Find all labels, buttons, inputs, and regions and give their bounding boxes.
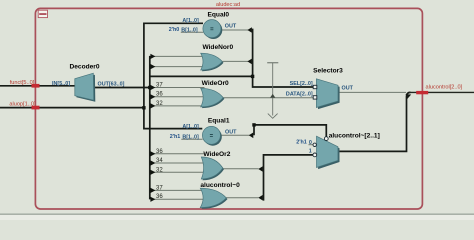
WideOr0: [201, 80, 229, 108]
svg-text:34: 34: [156, 158, 163, 164]
svg-text:WideOr2: WideOr2: [203, 151, 230, 158]
svg-text:aludec:ad: aludec:ad: [216, 2, 240, 8]
svg-text:alucontrol[2..0]: alucontrol[2..0]: [426, 85, 463, 91]
horizontal separator line: [0, 214, 474, 215]
ripper arrow 32 WideOr2: [150, 170, 155, 175]
wire Equal0 OUT: [221, 29, 248, 31]
svg-text:Decoder0: Decoder0: [69, 64, 99, 71]
svg-text:Equal0: Equal0: [207, 12, 229, 19]
svg-text:B[1..0]: B[1..0]: [181, 27, 198, 33]
svg-text:36: 36: [156, 149, 163, 155]
svg-text:alucontrol~0: alucontrol~0: [200, 182, 240, 189]
wire decoded vertical bus: [149, 56, 151, 200]
svg-text:32: 32: [156, 101, 163, 107]
svg-text:32: 32: [156, 167, 163, 173]
Selector3: [286, 68, 354, 110]
merge arrow at output junction: [406, 94, 412, 99]
svg-text:37: 37: [156, 185, 163, 191]
ripper arrow WideNor0 in2: [150, 64, 155, 69]
wire mux output riser: [338, 92, 411, 151]
wire 32 to WideOr2: [151, 171, 205, 173]
wire 36 to WideOr0: [151, 96, 204, 98]
wire 32 to WideOr0: [151, 105, 205, 107]
Decoder0: [52, 64, 125, 102]
module boundary aludec:ad: [35, 8, 422, 209]
junction aluop riser: [142, 106, 145, 109]
svg-text:OUT: OUT: [225, 23, 237, 29]
ripper arrow 37 alucontrol~0: [150, 188, 155, 193]
junction decoder OUT on bus: [148, 86, 151, 89]
bundler vertical for DATA: [267, 62, 278, 118]
ripper arrow 32 WideOr0: [150, 103, 155, 108]
merge arrow Equal1 OUT: [249, 133, 254, 139]
junction branch on SEL collector: [251, 75, 254, 78]
WideOr2: [201, 151, 230, 180]
mux alucontrol~[2..1]: [296, 132, 380, 169]
wire WideNor0 input 2: [151, 66, 205, 68]
svg-text:36: 36: [156, 92, 163, 98]
WideNor0: [201, 44, 234, 71]
wire Equal0 B constant stub: [181, 31, 204, 33]
ripper arrow 36 WideOr2: [150, 151, 155, 156]
svg-text:SEL[2..0]: SEL[2..0]: [290, 81, 313, 87]
ripper arrow 34 WideOr2: [150, 160, 155, 165]
ripper arrow 37 WideOr0: [150, 85, 155, 90]
junction Equal1 select route: [252, 123, 255, 126]
svg-text:37: 37: [156, 82, 163, 88]
pin cross aluop: [32, 106, 40, 110]
wire Equal1 B constant stub: [181, 138, 202, 140]
svg-text:Selector3: Selector3: [313, 68, 343, 75]
merge arrow alucontrol~0 OUT: [258, 195, 263, 201]
svg-text:WideOr0: WideOr0: [202, 80, 229, 87]
svg-text:IN[5..0]: IN[5..0]: [52, 81, 70, 87]
wire WideOr2 OUT: [222, 168, 259, 170]
wire Equal1 OUT to mux select: [254, 125, 326, 137]
wire alucontrol~0 OUT: [226, 197, 259, 199]
wire 37 to WideOr0: [151, 87, 205, 89]
svg-text:1: 1: [309, 149, 312, 155]
wire aluop riser to Equal0 A and Equal1 A: [144, 23, 203, 128]
pin cross alucontrol: [416, 91, 428, 94]
svg-text:36: 36: [156, 194, 163, 200]
wire WideNor0 input 1: [151, 55, 205, 57]
svg-text:=: =: [210, 27, 214, 33]
wire mux data0 constant stub: [309, 144, 314, 146]
svg-text:WideNor0: WideNor0: [202, 44, 233, 51]
wire WideOr0 OUT to DATA: [223, 97, 313, 99]
svg-text:B[1..0]: B[1..0]: [182, 135, 199, 141]
wire 34 to WideOr2: [151, 162, 205, 164]
wire Equal1 OUT: [221, 134, 250, 136]
svg-text:DATA[2..0]: DATA[2..0]: [286, 92, 313, 98]
ripper arrow WideNor0 in1: [150, 54, 155, 59]
wire alucontrol output: [409, 91, 474, 93]
wire Selector3 OUT: [338, 91, 406, 93]
svg-text:Equal1: Equal1: [208, 118, 230, 125]
wire WideNor0 OUT: [222, 60, 248, 62]
svg-text:2'h1: 2'h1: [296, 140, 307, 146]
wire SEL collector vertical to Selector3 SEL: [253, 29, 314, 87]
wire funct to Decoder0 IN: [0, 85, 75, 87]
wire Decoder0 OUT bus: [94, 87, 150, 89]
ripper arrow 36 alucontrol~0: [150, 197, 155, 202]
svg-text:OUT: OUT: [342, 85, 354, 91]
Equal1: [170, 118, 237, 146]
Equal0: [169, 12, 237, 39]
wire 37 to alucontrol~0: [151, 189, 205, 191]
wire 36 to WideOr2: [151, 153, 205, 155]
collapse box: [38, 10, 47, 17]
wire 36 to alucontrol~0: [151, 198, 205, 200]
wire branch to SEL collector: [150, 75, 253, 77]
svg-text:OUT: OUT: [225, 129, 237, 135]
alucontrol~0 gate: [200, 182, 240, 209]
wire mux data1 collector: [264, 155, 314, 201]
svg-text:2'h1: 2'h1: [170, 134, 181, 140]
svg-text:alucontrol~[2..1]: alucontrol~[2..1]: [329, 132, 380, 139]
merge arrow Equal0 OUT: [247, 27, 252, 33]
svg-text:2'h0: 2'h0: [169, 27, 180, 33]
wire aluop bus: [0, 107, 144, 109]
svg-text:0: 0: [309, 140, 312, 146]
merge arrow WideNor0 OUT: [247, 59, 252, 65]
merge arrow WideOr2 OUT: [258, 166, 263, 172]
svg-text:OUT[63..0]: OUT[63..0]: [98, 82, 125, 88]
svg-text:A[1..0]: A[1..0]: [182, 124, 199, 130]
bottom pane strip: [0, 215, 474, 220]
ripper arrow 36 WideOr0: [150, 94, 155, 99]
svg-text:=: =: [210, 134, 214, 140]
pin cross funct: [32, 84, 40, 88]
svg-text:A[1..0]: A[1..0]: [182, 18, 199, 24]
svg-text:funct[5..0]: funct[5..0]: [10, 80, 35, 86]
